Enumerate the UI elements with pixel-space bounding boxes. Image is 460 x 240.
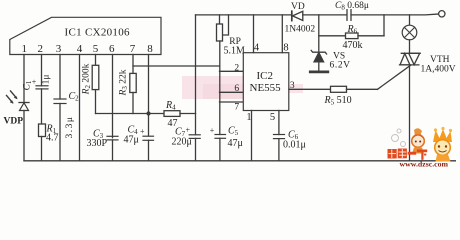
svg-text:IC1 CX20106: IC1 CX20106 bbox=[65, 27, 131, 39]
svg-text:5: 5 bbox=[93, 43, 99, 55]
svg-text:47μ: 47μ bbox=[228, 138, 243, 149]
IC2 pin3 wire + resistor R5 510 bbox=[289, 88, 331, 90]
svg-text:C1: C1 bbox=[23, 80, 34, 90]
wire IC1 pin7 bbox=[132, 55, 134, 74]
wire IC1 pin4 down bbox=[79, 55, 81, 161]
resistor R6 470k branch bbox=[319, 35, 346, 37]
capacitor C2 3.3u bbox=[54, 98, 66, 100]
svg-text:R5 510: R5 510 bbox=[324, 95, 352, 107]
svg-text:C5: C5 bbox=[228, 126, 239, 138]
svg-text:1A,400V: 1A,400V bbox=[421, 65, 456, 75]
svg-text:1μ: 1μ bbox=[42, 75, 52, 85]
svg-text:2: 2 bbox=[234, 64, 239, 74]
svg-text:8: 8 bbox=[283, 43, 288, 54]
svg-text:6: 6 bbox=[234, 84, 239, 94]
svg-text:330P: 330P bbox=[87, 138, 108, 149]
watermark mascot center bbox=[412, 128, 425, 153]
svg-text:4: 4 bbox=[77, 43, 83, 55]
capacitor C8 0.68u bbox=[346, 10, 348, 21]
svg-text:47μ: 47μ bbox=[124, 134, 139, 145]
node stub to IC2 pin2 bbox=[220, 70, 244, 72]
svg-text:4.7: 4.7 bbox=[46, 133, 59, 144]
triac VTH bbox=[401, 52, 420, 54]
capacitor C6 0.01u bbox=[274, 134, 285, 136]
potentiometer RP 5.1M bbox=[219, 15, 221, 24]
diode VD 1N4002 bbox=[291, 11, 293, 20]
svg-text:VTH: VTH bbox=[430, 55, 450, 65]
svg-text:0.01μ: 0.01μ bbox=[283, 140, 306, 151]
svg-text:1N4002: 1N4002 bbox=[285, 25, 316, 35]
svg-text:6: 6 bbox=[109, 43, 115, 55]
svg-text:3.3μ: 3.3μ bbox=[65, 116, 75, 139]
IC2 box bbox=[243, 53, 288, 111]
svg-text:1: 1 bbox=[22, 43, 28, 55]
svg-text:2: 2 bbox=[37, 43, 43, 55]
wire IC1 pin6 down bbox=[112, 55, 114, 138]
VDP light arrows bbox=[7, 91, 18, 104]
svg-text:3: 3 bbox=[56, 43, 62, 55]
svg-text:220μ: 220μ bbox=[172, 137, 192, 148]
resistor R3 22k bbox=[130, 73, 136, 92]
svg-text:7: 7 bbox=[234, 103, 239, 113]
IC2 pin4 wire bbox=[253, 15, 255, 53]
watermark mascot right bbox=[433, 127, 452, 162]
wire pin7 to node column bbox=[133, 65, 220, 67]
svg-text:R2 200k: R2 200k bbox=[82, 63, 93, 95]
wire IC1 pin5 bbox=[95, 55, 97, 66]
svg-text:6.2V: 6.2V bbox=[330, 61, 351, 71]
svg-text:www.dzsc.com: www.dzsc.com bbox=[400, 160, 449, 169]
wire IC1 pin1 down bbox=[23, 55, 25, 103]
svg-text:1: 1 bbox=[246, 112, 251, 123]
ground symbol bbox=[310, 71, 328, 74]
photodiode VDP bbox=[19, 102, 29, 104]
IC2 pin5 wire bbox=[278, 111, 280, 135]
svg-text:+: + bbox=[186, 126, 191, 135]
capacitor C3 330P bbox=[107, 135, 118, 137]
junction pin8/bus bbox=[146, 111, 150, 115]
svg-text:C2: C2 bbox=[69, 91, 80, 103]
svg-text:VD: VD bbox=[291, 2, 305, 12]
svg-text:4: 4 bbox=[254, 43, 260, 54]
watermark pink block deeper bbox=[203, 84, 247, 99]
IC1 box bbox=[10, 17, 161, 54]
watermark pink block right of IC2 bbox=[289, 84, 303, 93]
resistor R1 bbox=[39, 124, 46, 137]
svg-text:+: + bbox=[140, 127, 145, 136]
node stub to IC2 pin6 bbox=[220, 91, 244, 93]
Vcc bus wire bbox=[96, 113, 165, 115]
resistor R2 200k bbox=[92, 65, 99, 89]
watermark pink block left bbox=[182, 76, 247, 99]
svg-text:7: 7 bbox=[130, 43, 136, 55]
watermark gray doodles bbox=[392, 129, 406, 147]
wire IC1 pin2 down bbox=[41, 55, 43, 86]
svg-text:IC2: IC2 bbox=[257, 70, 274, 82]
svg-text:R3 22k: R3 22k bbox=[119, 69, 130, 96]
svg-text:8: 8 bbox=[147, 43, 153, 55]
IC2 pin labels bbox=[234, 43, 294, 123]
svg-text:5.1M: 5.1M bbox=[224, 45, 246, 56]
bottom rail (ground) bbox=[24, 160, 456, 162]
node stub to IC2 pin7 bbox=[220, 101, 244, 103]
svg-text:470k: 470k bbox=[343, 40, 363, 51]
wire IC1 pin8 down bbox=[148, 55, 150, 137]
terminal circle bbox=[439, 11, 445, 17]
zener VS 6.2V branch bbox=[318, 15, 320, 52]
IC2 pin8 wire bbox=[281, 15, 283, 53]
Vcc vertical wire bbox=[195, 15, 197, 135]
svg-text:+: + bbox=[210, 126, 215, 135]
capacitor C4 47u bbox=[143, 135, 154, 137]
svg-text:R4: R4 bbox=[165, 100, 176, 112]
top rail bbox=[196, 14, 292, 16]
svg-text:5: 5 bbox=[270, 112, 275, 123]
svg-text:VDP: VDP bbox=[4, 117, 24, 127]
svg-text:C8 0.68μ: C8 0.68μ bbox=[335, 1, 369, 12]
IC1 pin numbers bbox=[22, 43, 154, 55]
svg-text:R6: R6 bbox=[347, 24, 358, 36]
capacitor C7 220u bbox=[189, 134, 200, 136]
wire IC1 pin3 down bbox=[59, 55, 61, 100]
IC2 pin1 wire bbox=[251, 111, 253, 161]
triac gate wire bbox=[378, 65, 411, 89]
capacitor C5 47u bbox=[215, 134, 226, 136]
resistor R4 47 bbox=[164, 111, 180, 117]
capacitor C1 1u bbox=[36, 85, 48, 87]
watermark red text bbox=[388, 149, 428, 160]
indicator lamp bbox=[409, 15, 411, 25]
svg-text:NE555: NE555 bbox=[250, 82, 282, 94]
